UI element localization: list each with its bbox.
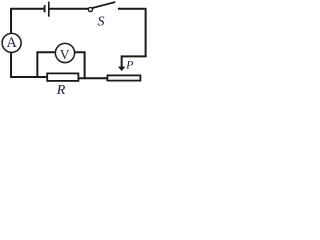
svg-text:A: A xyxy=(6,35,17,51)
svg-text:P: P xyxy=(125,58,134,72)
svg-text:S: S xyxy=(98,14,105,29)
svg-text:R: R xyxy=(56,83,66,96)
svg-text:V: V xyxy=(60,47,70,62)
